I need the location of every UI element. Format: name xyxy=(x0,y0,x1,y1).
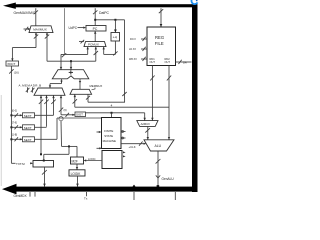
wire below-bus stub b xyxy=(34,192,36,197)
svg-text:SEXT: SEXT xyxy=(24,126,32,130)
register XDCT xyxy=(6,61,19,66)
wire adder output right down into right mux xyxy=(79,79,81,90)
svg-text:STATE: STATE xyxy=(104,134,113,138)
svg-text:SEXT: SEXT xyxy=(24,114,32,118)
node junction bump on bottom bus xyxy=(132,185,135,187)
wire mux w1 junction into line154 xyxy=(40,153,42,155)
wire FSM clock line to ALU xyxy=(121,142,145,146)
node junction PC column xyxy=(94,19,96,21)
wire left mux input w3 xyxy=(51,95,55,115)
node junction sext tap 2 xyxy=(10,126,12,128)
wire below-bus stub Tx xyxy=(86,192,88,196)
wire REGFILE bottom output A to SRCMUX xyxy=(150,66,154,121)
wire SRCMUX output into ALU xyxy=(145,126,150,139)
svg-text:+4: +4 xyxy=(113,36,117,40)
wire bus to MAXMUX xyxy=(34,8,38,26)
wire REGFILE left input 2 xyxy=(141,47,147,51)
wire down from junction to line154 xyxy=(44,146,69,160)
svg-text:(6): (6) xyxy=(64,108,67,112)
wire bottom-left box output down to bus xyxy=(42,167,47,187)
register bottom-left box xyxy=(33,161,54,168)
wire FSM right output 2 xyxy=(121,137,126,139)
node junction plus4 column xyxy=(114,19,116,21)
wire left mux input w4 xyxy=(59,95,63,115)
svg-text:A.MEMADR.B: A.MEMADR.B xyxy=(19,84,42,88)
wire line106 horizontal long xyxy=(75,106,169,108)
register SEXT1 xyxy=(23,113,35,118)
wire branch into SEXT4 xyxy=(61,113,75,117)
node junction box top xyxy=(43,160,45,162)
wire SEXT3 output elbow up to line118 xyxy=(35,118,102,139)
alu ALU xyxy=(144,140,174,151)
svg-text:DA: DA xyxy=(183,60,187,64)
svg-text:TXT.M: TXT.M xyxy=(16,162,25,166)
wire SEXT4 output line114 to SRCMUX xyxy=(86,112,145,114)
svg-text:GenALU: GenALU xyxy=(162,177,175,181)
node junction sext tap 1 xyxy=(10,114,12,116)
svg-text:FINITE: FINITE xyxy=(104,129,113,133)
wire arrow from box2 into M2F with label xyxy=(86,160,103,162)
mux left (MEMADR mux) xyxy=(34,88,65,95)
svg-text:[7-9]: [7-9] xyxy=(12,122,17,125)
register SEXT2 xyxy=(23,125,35,130)
wire SEXT2 output elbow up xyxy=(35,126,47,128)
register PC xyxy=(86,26,106,32)
wire plus4 output to PCMUX right input xyxy=(104,41,118,55)
wire REGFILE bottom output B to ALU xyxy=(167,66,171,140)
mux SRCMUX xyxy=(137,121,158,127)
wire MAXMUX output left branch to XDCT xyxy=(12,33,38,61)
svg-text:GenMDX: GenMDX xyxy=(14,194,28,198)
node junction FSM feed xyxy=(111,112,113,114)
svg-text:LD.XX: LD.XX xyxy=(129,48,136,51)
wire right mux stub to line98 xyxy=(86,94,90,102)
wire box2 top-left input arrow xyxy=(97,147,101,149)
register SEXT4 xyxy=(75,112,86,117)
mux MAXMUX xyxy=(29,26,53,33)
wire line102 horizontal xyxy=(88,101,125,103)
wire label arrow into bottom-left box xyxy=(11,162,15,164)
svg-text:MAXMUX: MAXMUX xyxy=(33,28,47,32)
wire PCMUX output up into PC xyxy=(94,31,96,42)
svg-text:PCMUX: PCMUX xyxy=(88,43,99,47)
wire FSM left input arrow xyxy=(97,131,101,133)
register SEXT3 xyxy=(23,137,35,142)
wire box2 right tick 2 xyxy=(123,155,126,157)
wire tap 3 into SEXT3 xyxy=(11,137,22,141)
svg-text:(16): (16) xyxy=(14,70,19,74)
wire select slash b xyxy=(31,87,35,92)
wire below-bus long line 2 xyxy=(174,192,176,200)
wire UdPC arrow into PC xyxy=(78,27,85,29)
register LOGIC box xyxy=(69,170,85,176)
wire REGFILE left input 1 xyxy=(141,37,147,41)
adder plus4 box xyxy=(111,33,120,42)
wire M2F down to LOGIC xyxy=(76,164,78,170)
svg-text:DO.X: DO.X xyxy=(130,38,136,41)
wire from bubble down to elbow xyxy=(61,121,77,157)
svg-text:A2MUX: A2MUX xyxy=(141,122,150,126)
bus top thick arrow pointing left xyxy=(3,3,198,9)
svg-text:M2F: M2F xyxy=(72,160,78,164)
svg-text:MACHINE: MACHINE xyxy=(103,139,116,143)
register M2F box xyxy=(71,157,84,164)
svg-text:XDCT: XDCT xyxy=(7,62,15,66)
node blue corner icon xyxy=(191,0,197,4)
svg-text:[1-B]: [1-B] xyxy=(12,134,17,137)
svg-text:SEXT: SEXT xyxy=(24,138,32,142)
wire MEMMUX leader xyxy=(92,88,96,90)
node junction sext tap 3 xyxy=(10,138,12,140)
wire junction down into adder xyxy=(70,61,72,69)
svg-text:MEMMUX: MEMMUX xyxy=(90,84,103,88)
mux right (MEM mux) xyxy=(70,89,92,94)
node bubble on w4 wire xyxy=(59,117,63,121)
svg-text:PC: PC xyxy=(93,27,98,31)
wire tap 1 into SEXT1 xyxy=(11,113,22,117)
svg-text:LOOC: LOOC xyxy=(88,157,96,161)
svg-text:OUT: OUT xyxy=(165,60,171,64)
wire page-edge artifact left xyxy=(0,95,2,186)
wire node up into PCMUX middle input xyxy=(94,47,98,62)
svg-text:UdPC: UdPC xyxy=(69,26,78,30)
svg-text:GenMAX/IM/G: GenMAX/IM/G xyxy=(14,11,36,15)
adder main (middle) xyxy=(52,70,89,79)
svg-text:[0-0]: [0-0] xyxy=(12,110,17,113)
svg-text:Tx: Tx xyxy=(84,196,88,200)
register IR box2 below FSM xyxy=(102,151,122,169)
wire SEXT1 output elbow up xyxy=(35,114,54,116)
node junction on adder feed xyxy=(70,60,72,62)
node junction at 69 xyxy=(68,145,70,147)
wire junction down into plus4 xyxy=(114,20,116,33)
wire REGFILE right output to bus bar xyxy=(176,60,192,64)
svg-text:OUT: OUT xyxy=(150,60,156,64)
wire adder output left down into left mux xyxy=(50,79,62,88)
bus bottom thick arrow pointing left xyxy=(2,184,198,195)
wire bus tap down to elbow line xyxy=(64,8,66,54)
wire ALU output down to bottom bus xyxy=(156,151,161,187)
register file REGFILE xyxy=(147,27,176,66)
wire FSM right output 1 xyxy=(121,131,126,133)
mux PCMUX xyxy=(84,42,106,47)
svg-text:FILE: FILE xyxy=(155,41,164,46)
wire left mux input w2 xyxy=(44,95,48,127)
wire line114 arrow into SRCMUX xyxy=(144,113,146,121)
wire left mux input w1 xyxy=(39,95,43,154)
wire REGFILE left input 3 xyxy=(141,57,147,61)
wire junction stub into FSM top xyxy=(111,113,113,118)
wire right mux left stub down to line106 xyxy=(73,94,77,107)
svg-text:LOGIK: LOGIK xyxy=(71,172,82,176)
wire box2 right tick 1 xyxy=(123,151,126,153)
svg-text:SIGT: SIGT xyxy=(76,113,83,117)
bus right thick vertical bar xyxy=(192,5,198,192)
wire PCMUX select slash top-left xyxy=(79,40,84,44)
wire below-bus stub a xyxy=(29,192,31,197)
wire PCMUX left input elbow from adder feed xyxy=(61,47,88,70)
svg-text:DatPC: DatPC xyxy=(99,11,110,15)
svg-text:WR.XX: WR.XX xyxy=(129,58,137,61)
wire below-bus long line 1 xyxy=(133,192,135,200)
wire MAXMUX left select input xyxy=(24,27,31,31)
wire bus down to REG FILE xyxy=(159,8,163,27)
state machine FSM box xyxy=(102,118,122,149)
wire LOGIC output down to bottom bus xyxy=(77,176,79,187)
svg-text:REG: REG xyxy=(155,35,164,40)
wire XDCT output down with width label xyxy=(9,66,13,163)
svg-text:ALU: ALU xyxy=(155,144,162,148)
wire MAXMUX output right branch down to horizontal node xyxy=(45,33,96,62)
wire bus down to PC through junction xyxy=(93,8,127,98)
wire tap 2 into SEXT2 xyxy=(11,125,22,129)
wire select slash a xyxy=(26,87,30,92)
svg-text:+CLK: +CLK xyxy=(129,145,136,149)
